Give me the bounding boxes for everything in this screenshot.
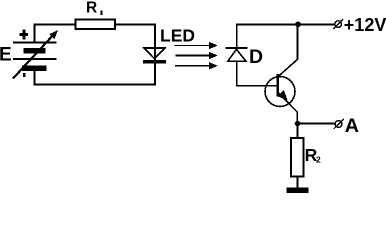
svg-text:R: R bbox=[86, 0, 97, 16]
wire: junction to R2 bbox=[297, 124, 299, 138]
battery E: bar 1 (thick negative) bbox=[24, 48, 46, 54]
terminal A circle bbox=[334, 119, 344, 129]
wire: top wire right segment to LED branch bbox=[115, 24, 155, 26]
light arrow 1 bbox=[174, 42, 217, 49]
variable-source arrowhead bbox=[49, 30, 58, 39]
photodiode D triangle bbox=[228, 49, 246, 61]
junction dot (collector / +12V rail) bbox=[295, 22, 301, 28]
label R2 bbox=[305, 145, 321, 165]
wire: battery bottom lead + bottom wire of loop bbox=[35, 70, 156, 85]
battery plus sign bbox=[20, 30, 28, 40]
wire: photodiode branch top lead bbox=[236, 25, 238, 48]
junction dot (emitter / A / R2) bbox=[295, 121, 301, 127]
ground bbox=[286, 187, 308, 193]
photodiode D cathode bar bbox=[226, 47, 248, 49]
wire: R2 to ground bbox=[297, 178, 299, 189]
wire: top-left corner + battery top lead bbox=[35, 25, 76, 44]
resistor R1 bbox=[75, 19, 114, 28]
wire: collector bbox=[278, 25, 298, 77]
emitter arrowhead bbox=[277, 90, 287, 100]
svg-text:LED: LED bbox=[160, 25, 195, 45]
battery minus tick bbox=[23, 73, 26, 77]
transistor Q1 circle bbox=[265, 77, 295, 107]
light arrow 3 bbox=[175, 62, 218, 69]
resistor R2 bbox=[291, 138, 303, 177]
transistor Q1 base bar bbox=[276, 74, 279, 97]
battery E: plate 1 (thin positive) bbox=[13, 42, 57, 44]
wire: top rail to +12V terminal bbox=[236, 24, 334, 26]
battery E: bar 2 (thick negative) bbox=[22, 65, 46, 70]
terminal +12V circle bbox=[333, 19, 343, 29]
LED cathode bar bbox=[143, 60, 166, 64]
svg-text:+12V: +12V bbox=[344, 15, 386, 35]
variable-source arrow shaft bbox=[13, 35, 54, 79]
svg-text:A: A bbox=[345, 115, 359, 137]
LED triangle bbox=[144, 48, 165, 59]
wire: photodiode bottom lead + base wire bbox=[237, 61, 277, 85]
svg-text:E: E bbox=[0, 45, 12, 66]
label R1 bbox=[86, 0, 102, 16]
light arrow 2 bbox=[175, 52, 218, 59]
svg-text:2: 2 bbox=[316, 155, 321, 165]
wire: emitter bbox=[278, 93, 297, 123]
wire: node A horizontal bbox=[298, 123, 335, 125]
battery E: plate 2 (thin positive) bbox=[13, 58, 57, 60]
svg-text:D: D bbox=[249, 46, 263, 68]
wire: LED branch vertical bbox=[154, 24, 156, 86]
